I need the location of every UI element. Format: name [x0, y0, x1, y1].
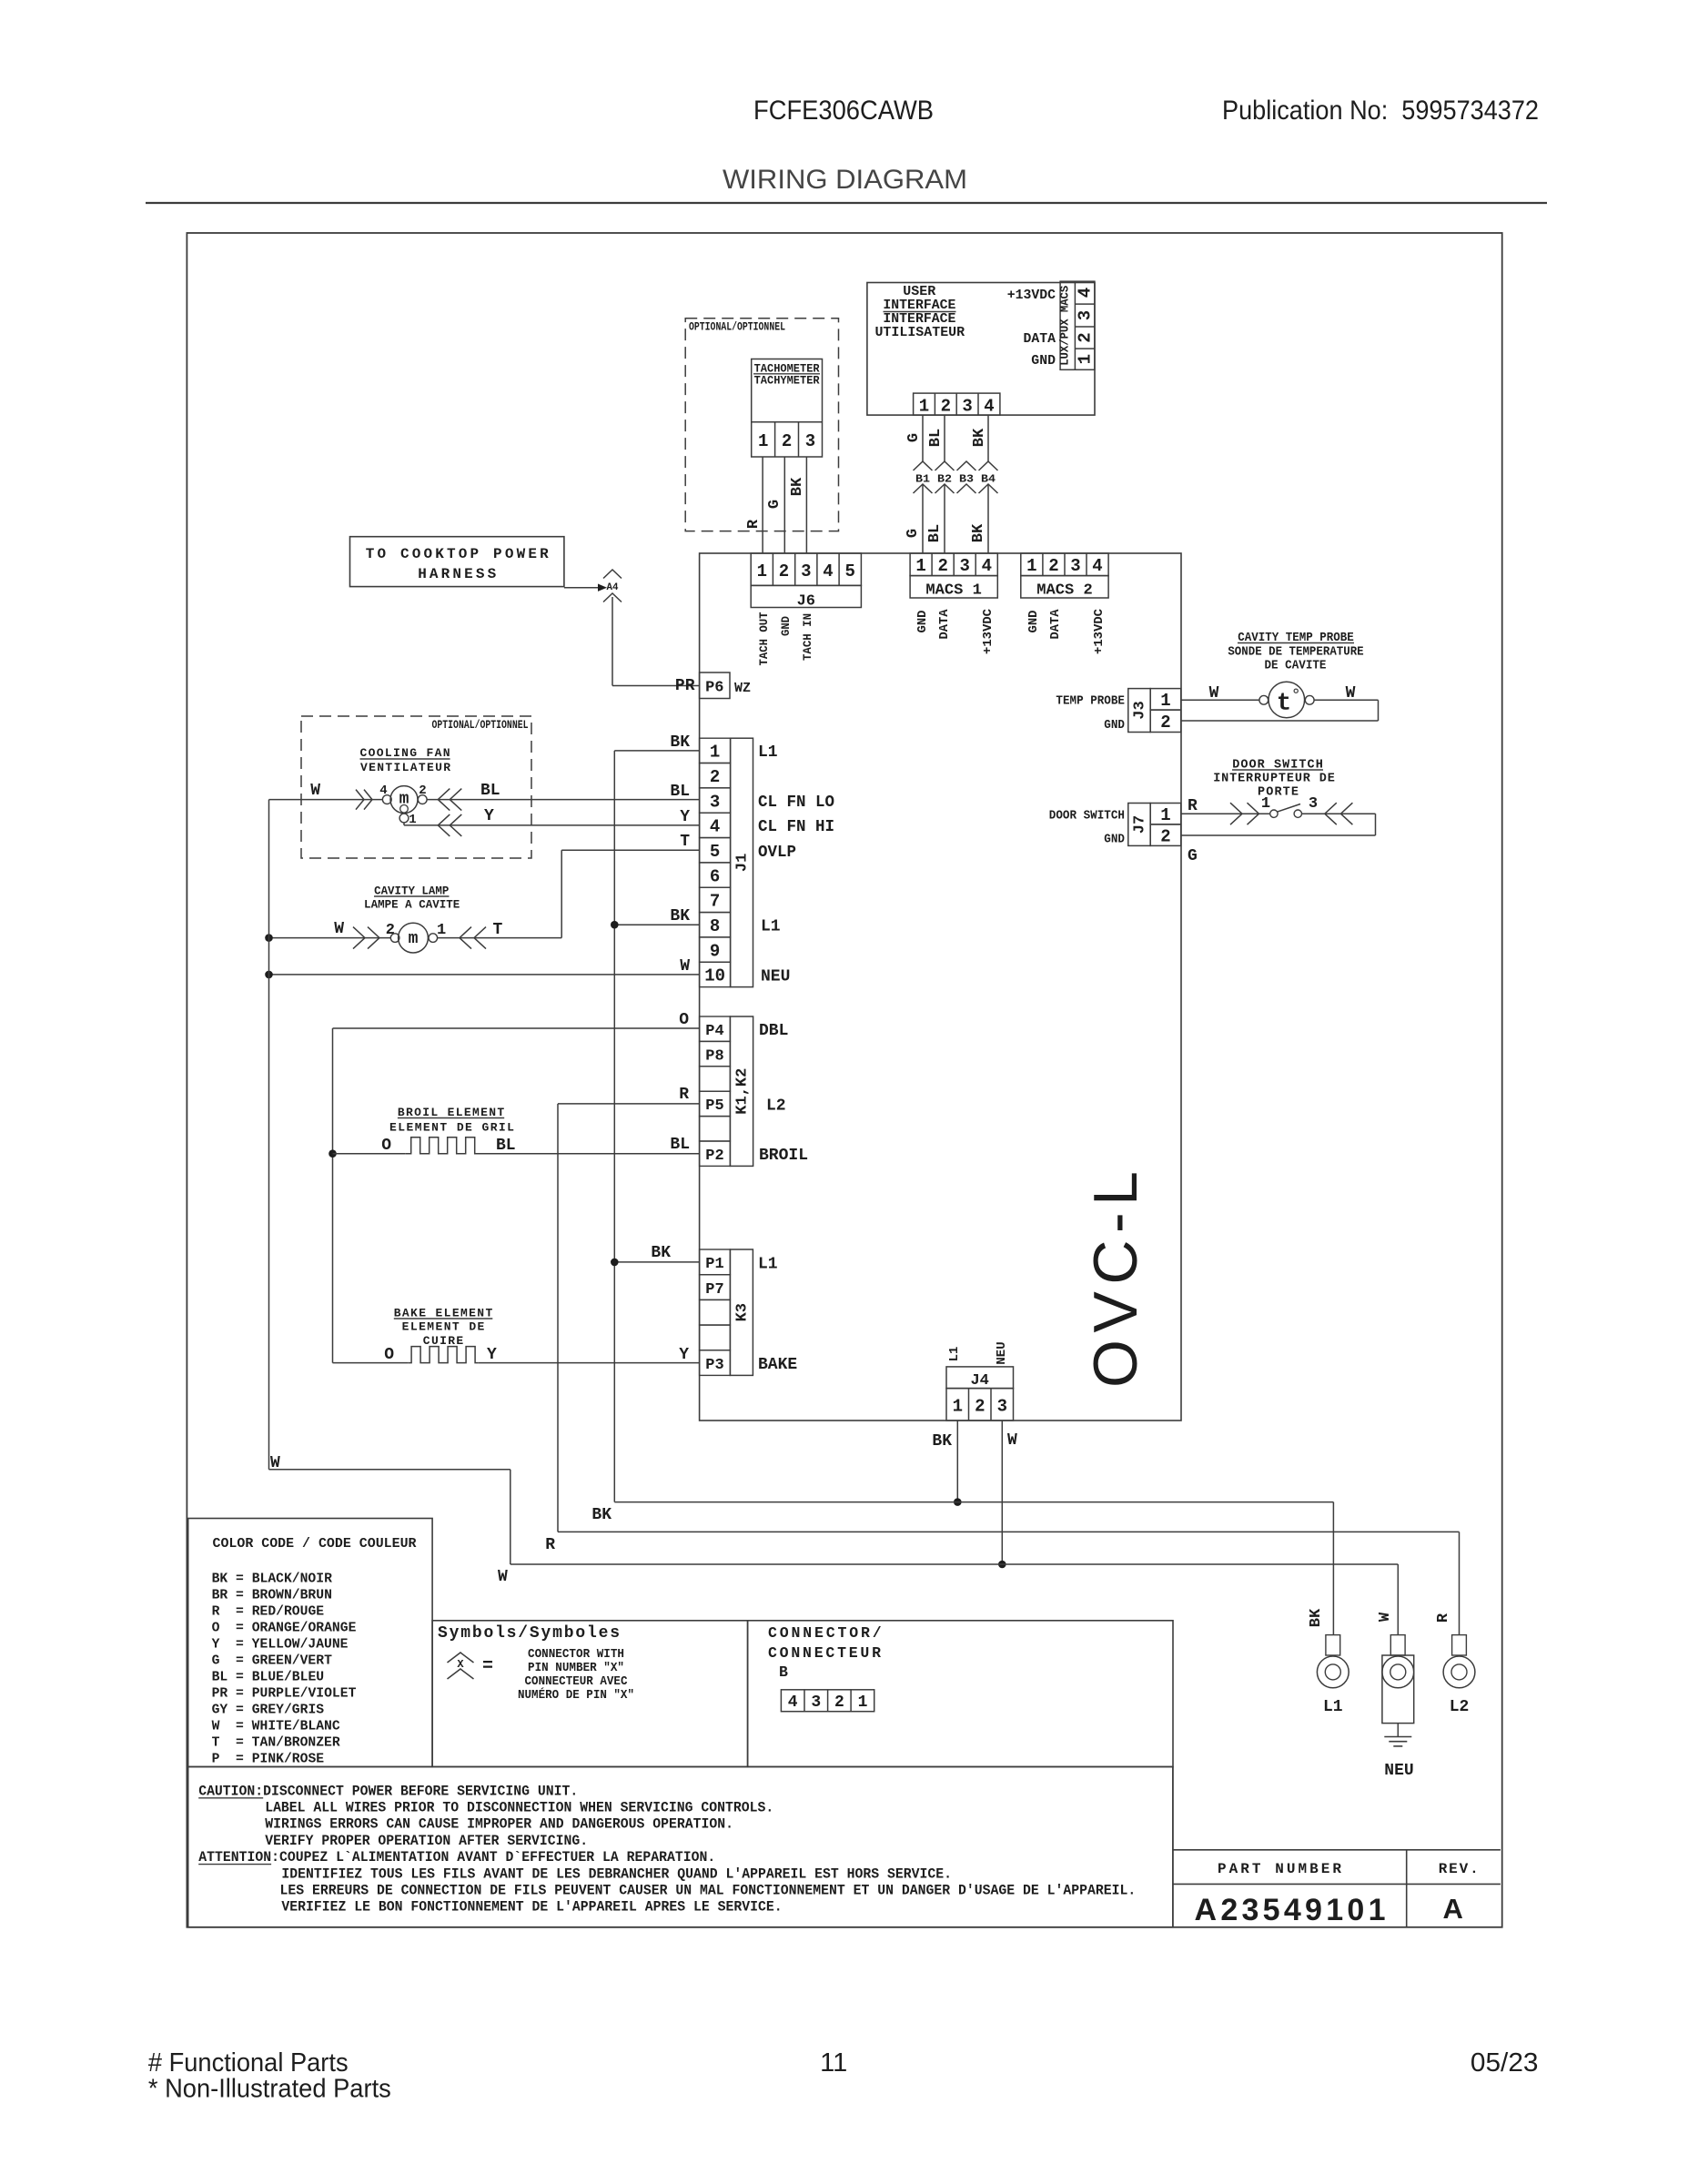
svg-text:6: 6 — [710, 866, 720, 886]
svg-text:GND: GND — [1031, 353, 1056, 369]
svg-text:3: 3 — [997, 1397, 1007, 1417]
svg-text:1: 1 — [919, 397, 929, 417]
svg-text:05/23: 05/23 — [1471, 2048, 1539, 2078]
wire O to P4 (DBL) — [333, 1027, 700, 1029]
broil element resistor — [406, 1137, 480, 1154]
legend connector symbol — [448, 1653, 474, 1663]
svg-text:BK: BK — [651, 1244, 671, 1262]
svg-text:BL: BL — [927, 429, 945, 447]
svg-text:L1: L1 — [947, 1347, 962, 1362]
svg-text:OVC-L: OVC-L — [1081, 1171, 1150, 1388]
svg-text:W: W — [498, 1568, 508, 1586]
wire BL fan to J1-3 — [427, 799, 700, 801]
svg-text:1: 1 — [915, 556, 925, 576]
svg-text:K3: K3 — [734, 1303, 752, 1321]
svg-text:Y: Y — [680, 808, 690, 826]
svg-text:Publication No: 5995734372: Publication No: 5995734372 — [1222, 96, 1539, 126]
wire UI pin to B2 — [944, 415, 945, 461]
to cooktop power harness box — [350, 537, 564, 587]
svg-text:J1: J1 — [734, 854, 752, 872]
svg-text:PIN NUMBER "X": PIN NUMBER "X" — [528, 1662, 624, 1675]
svg-text:DE CAVITE: DE CAVITE — [1265, 660, 1327, 673]
svg-text:NEU: NEU — [1384, 1762, 1413, 1780]
wire J3-1 to temp probe (W) — [1181, 699, 1259, 701]
svg-text:1: 1 — [1261, 795, 1270, 813]
svg-text:1: 1 — [710, 743, 720, 763]
svg-text:R: R — [1435, 1613, 1452, 1623]
wire Y fan to J1-4 — [403, 823, 405, 825]
svg-text:WIRINGS ERRORS CAN CAUSE IMPRO: WIRINGS ERRORS CAN CAUSE IMPROPER AND DA… — [265, 1816, 733, 1833]
svg-text:5: 5 — [844, 561, 854, 581]
svg-text:FCFE306CAWB: FCFE306CAWB — [753, 96, 934, 126]
diagram outer border — [187, 233, 1501, 1927]
wire W to fan pin4 — [269, 799, 383, 801]
svg-text:9: 9 — [710, 941, 720, 961]
svg-text:PR = PURPLE/VIOLET: PR = PURPLE/VIOLET — [212, 1686, 357, 1702]
svg-text:BK: BK — [932, 1432, 952, 1451]
optional tachometer dashed box — [685, 318, 838, 531]
svg-text:BK: BK — [670, 907, 690, 925]
svg-text:P5: P5 — [705, 1097, 723, 1115]
color code box — [188, 1519, 432, 1767]
svg-text:IDENTIFIEZ TOUS LES FILS AVANT: IDENTIFIEZ TOUS LES FILS AVANT DE LES DE… — [281, 1865, 952, 1882]
wire W to lamp — [269, 937, 391, 939]
wire J7-1 to door switch (R) — [1181, 813, 1269, 814]
svg-text:CL FN LO: CL FN LO — [758, 794, 834, 812]
svg-text:1: 1 — [409, 813, 416, 827]
terminal NEU block — [1382, 1655, 1414, 1724]
svg-text:BL: BL — [496, 1137, 516, 1155]
svg-text:CAUTION:DISCONNECT POWER BEFOR: CAUTION:DISCONNECT POWER BEFORE SERVICIN… — [198, 1783, 578, 1799]
svg-text:VENTILATEUR: VENTILATEUR — [360, 761, 450, 774]
svg-text:T = TAN/BRONZER: T = TAN/BRONZER — [212, 1735, 340, 1751]
svg-text:2: 2 — [710, 767, 720, 787]
svg-text:2: 2 — [419, 784, 426, 798]
svg-text:m: m — [399, 791, 409, 809]
svg-text:DATA: DATA — [1048, 609, 1063, 640]
svg-text:OVLP: OVLP — [758, 844, 796, 862]
svg-text:4: 4 — [1076, 288, 1096, 298]
svg-text:W: W — [680, 957, 690, 976]
connector B2 — [935, 461, 955, 470]
wire BK to J1-1 — [614, 750, 699, 752]
svg-text:BK: BK — [591, 1506, 612, 1524]
svg-text:BR = BROWN/BRUN: BR = BROWN/BRUN — [212, 1588, 332, 1603]
svg-text:2: 2 — [1160, 713, 1170, 733]
svg-text:Symbols/Symboles: Symbols/Symboles — [438, 1624, 620, 1643]
terminal L1 — [1326, 1635, 1340, 1655]
svg-text:+13VDC: +13VDC — [1092, 608, 1107, 654]
svg-text:1: 1 — [1160, 691, 1170, 711]
header rule — [146, 202, 1547, 204]
lamp T chevrons — [460, 927, 471, 949]
svg-text:TEMP PROBE: TEMP PROBE — [1056, 695, 1125, 709]
svg-text:R: R — [679, 1086, 689, 1104]
svg-text:G: G — [766, 500, 783, 509]
fan terminal 4 — [382, 795, 391, 804]
svg-text:BK: BK — [670, 733, 690, 752]
svg-text:1: 1 — [757, 561, 767, 581]
svg-text:Y = YELLOW/JAUNE: Y = YELLOW/JAUNE — [212, 1637, 349, 1653]
svg-text:2: 2 — [1048, 556, 1058, 576]
connector J3 — [1128, 689, 1150, 733]
connector MACS 2 — [1021, 553, 1108, 576]
connector B3 — [957, 461, 976, 470]
svg-text:GY = GREY/GRIS: GY = GREY/GRIS — [212, 1703, 325, 1718]
svg-text:L1: L1 — [1323, 1698, 1343, 1716]
svg-text:2: 2 — [1076, 332, 1096, 342]
svg-text:BK: BK — [1308, 1608, 1325, 1627]
svg-text:4: 4 — [788, 1694, 798, 1712]
svg-text:1: 1 — [1160, 805, 1170, 825]
svg-text:ELEMENT DE: ELEMENT DE — [402, 1320, 485, 1334]
svg-text:BL: BL — [670, 1136, 690, 1154]
svg-text:BK = BLACK/NOIR: BK = BLACK/NOIR — [212, 1572, 332, 1587]
svg-text:INTERRUPTEUR DE: INTERRUPTEUR DE — [1213, 773, 1335, 786]
door switch chevrons in — [1230, 803, 1242, 824]
connector B pin row — [781, 1690, 874, 1712]
temp probe sensor — [1269, 682, 1305, 718]
svg-text:W = WHITE/BLANC: W = WHITE/BLANC — [212, 1719, 340, 1734]
svg-text:LES ERREURS DE CONNECTION DE F: LES ERREURS DE CONNECTION DE FILS PEUVEN… — [280, 1883, 1137, 1899]
svg-text:COLOR CODE / CODE COULEUR: COLOR CODE / CODE COULEUR — [213, 1536, 417, 1552]
svg-text:7: 7 — [710, 892, 720, 912]
svg-text:BL: BL — [926, 524, 944, 542]
svg-text:5: 5 — [710, 842, 720, 862]
svg-text:W: W — [1209, 684, 1219, 703]
BK bus vertical wire — [613, 751, 615, 1502]
wire BK to J1-8 — [614, 924, 699, 925]
svg-text:MACS 1: MACS 1 — [925, 582, 982, 600]
door switch blade — [1277, 804, 1300, 813]
fan Y chevrons — [438, 814, 450, 836]
bake element resistor — [409, 1347, 479, 1363]
svg-text:W: W — [1007, 1431, 1017, 1450]
svg-text:2: 2 — [937, 556, 947, 576]
connector J7 — [1128, 804, 1150, 846]
wire A4 to P6 — [612, 597, 613, 686]
svg-text:4: 4 — [823, 561, 833, 581]
optional cooling fan dashed box — [301, 716, 531, 858]
svg-text:GND: GND — [1104, 719, 1125, 733]
BK bus lower run — [614, 1501, 1333, 1503]
wire to bake element — [333, 1362, 409, 1364]
svg-text:O: O — [381, 1137, 391, 1155]
svg-text:DATA: DATA — [1024, 331, 1056, 347]
svg-text:NEU: NEU — [761, 968, 790, 986]
svg-text:R: R — [1188, 797, 1198, 815]
ground symbol — [1397, 1724, 1399, 1737]
cavity lamp — [399, 923, 429, 953]
user interface box — [867, 283, 1095, 416]
svg-text:B: B — [779, 1663, 788, 1681]
wire to broil element — [333, 1153, 406, 1155]
temp probe terminal left — [1259, 695, 1269, 704]
junction dot J4-3 W bus — [998, 1561, 1006, 1569]
wire tach pin2 to J6-2 (G) — [783, 457, 785, 553]
svg-text:A4: A4 — [607, 582, 619, 593]
wire door switch return — [1302, 813, 1376, 814]
svg-text:+13VDC: +13VDC — [1007, 288, 1056, 303]
svg-text:P6: P6 — [705, 680, 723, 697]
svg-text:BL = BLUE/BLEU: BL = BLUE/BLEU — [212, 1670, 325, 1685]
svg-text:3: 3 — [801, 561, 811, 581]
svg-text:CONNECTEUR AVEC: CONNECTEUR AVEC — [525, 1675, 628, 1689]
svg-text:R = RED/ROUGE: R = RED/ROUGE — [212, 1604, 325, 1620]
svg-text:WIRING DIAGRAM: WIRING DIAGRAM — [723, 165, 967, 195]
svg-text:CL FN HI: CL FN HI — [758, 818, 834, 836]
svg-text:P2: P2 — [705, 1148, 723, 1165]
svg-text:L1: L1 — [761, 918, 781, 936]
attention underline — [198, 1864, 271, 1865]
wire W to J1-10 — [269, 974, 700, 976]
svg-text:P = PINK/ROSE: P = PINK/ROSE — [212, 1752, 325, 1767]
svg-text:3: 3 — [962, 397, 972, 417]
junction dot J4-1 BK bus — [954, 1498, 962, 1506]
svg-text:1: 1 — [758, 431, 768, 451]
wire lamp to T corner — [438, 937, 562, 939]
W bus vertical wire left — [268, 800, 270, 1470]
junction dot W J1-10 — [265, 971, 273, 979]
svg-text:R: R — [745, 519, 763, 529]
svg-text:TACHYMETER: TACHYMETER — [754, 375, 820, 388]
connector B4 — [979, 461, 998, 470]
door switch chevrons out — [1325, 803, 1337, 824]
svg-text:TACH OUT: TACH OUT — [757, 612, 771, 665]
lamp terminal 1 — [429, 934, 438, 943]
connector K3 pins — [700, 1249, 731, 1275]
connector MACS 1 — [910, 553, 997, 576]
cooling fan motor — [390, 786, 418, 814]
svg-text:BL: BL — [480, 782, 500, 800]
wire temp probe return — [1314, 699, 1379, 701]
svg-text:COOLING FAN: COOLING FAN — [360, 746, 450, 760]
svg-text:CUIRE: CUIRE — [423, 1334, 464, 1348]
svg-text:4: 4 — [1092, 556, 1102, 576]
svg-text:8: 8 — [710, 916, 720, 936]
svg-text:P1: P1 — [705, 1256, 723, 1273]
wire R to P5 (L2) — [558, 1103, 700, 1105]
svg-text:LAMPE A CAVITE: LAMPE A CAVITE — [364, 899, 460, 912]
svg-text:P8: P8 — [705, 1047, 723, 1065]
svg-text:PR: PR — [675, 677, 695, 695]
svg-text:A23549101: A23549101 — [1195, 1893, 1386, 1927]
connector J1 — [700, 738, 731, 763]
svg-text:G: G — [905, 529, 922, 538]
svg-text:REV.: REV. — [1439, 1861, 1479, 1877]
svg-text:O: O — [384, 1346, 394, 1364]
svg-text:4: 4 — [984, 397, 994, 417]
svg-text:GND: GND — [779, 616, 793, 636]
svg-text:BK: BK — [970, 523, 987, 542]
connector J6 — [751, 553, 861, 585]
svg-text:1: 1 — [437, 922, 446, 939]
svg-text:PART NUMBER: PART NUMBER — [1218, 1861, 1341, 1877]
svg-text:GND: GND — [915, 611, 930, 633]
wire J4-3 down (W) — [1001, 1421, 1003, 1564]
svg-text:4: 4 — [982, 556, 992, 576]
wire J4-1 down (BK) — [956, 1421, 958, 1502]
connector J4 — [946, 1367, 1014, 1389]
svg-text:2: 2 — [941, 397, 951, 417]
svg-text:P4: P4 — [705, 1023, 723, 1040]
svg-text:3: 3 — [1309, 795, 1318, 813]
svg-text:Y: Y — [679, 1346, 689, 1364]
svg-text:W: W — [334, 920, 344, 938]
svg-text:A: A — [1443, 1893, 1463, 1925]
svg-text:11: 11 — [820, 2048, 847, 2078]
fan terminal 2 — [418, 795, 427, 804]
svg-text:O: O — [679, 1011, 689, 1029]
svg-text:MACS 2: MACS 2 — [1036, 582, 1093, 600]
svg-text:J3: J3 — [1132, 701, 1149, 719]
svg-text:G: G — [1188, 847, 1198, 865]
svg-text:ELEMENT DE GRIL: ELEMENT DE GRIL — [389, 1121, 514, 1135]
svg-text:10: 10 — [704, 966, 725, 986]
temp probe terminal right — [1305, 695, 1314, 704]
svg-text:2: 2 — [1160, 827, 1170, 847]
svg-text:t: t — [1277, 691, 1291, 718]
svg-text:1: 1 — [858, 1694, 868, 1712]
connector A4 — [603, 570, 622, 579]
svg-text:m: m — [409, 930, 419, 948]
svg-text:DATA: DATA — [937, 609, 952, 640]
wire T lamp to J1-5 — [561, 849, 699, 851]
junction dot BK P1 — [611, 1259, 619, 1267]
svg-text:1: 1 — [1026, 556, 1036, 576]
svg-text:NUMÉRO DE PIN "X": NUMÉRO DE PIN "X" — [518, 1688, 634, 1703]
svg-text:L1: L1 — [758, 743, 778, 762]
svg-text:4: 4 — [379, 784, 387, 798]
wire BK to P1 — [614, 1261, 699, 1263]
svg-text:OPTIONAL/OPTIONNEL: OPTIONAL/OPTIONNEL — [432, 718, 529, 732]
svg-text:2: 2 — [975, 1397, 985, 1417]
junction dot broil tap — [329, 1149, 337, 1158]
caution underline — [198, 1797, 263, 1799]
svg-text:W: W — [270, 1454, 280, 1472]
svg-text:GND: GND — [1104, 834, 1125, 847]
connector B1 — [914, 461, 933, 470]
svg-text:P3: P3 — [705, 1357, 723, 1374]
svg-text:L2: L2 — [766, 1097, 786, 1116]
svg-text:G = GREEN/VERT: G = GREEN/VERT — [212, 1653, 332, 1669]
connector P6 — [700, 672, 730, 699]
svg-text:LABEL ALL WIRES PRIOR TO DISCO: LABEL ALL WIRES PRIOR TO DISCONNECTION W… — [265, 1800, 773, 1816]
svg-text:R: R — [545, 1536, 555, 1554]
svg-text:L1: L1 — [758, 1256, 778, 1274]
svg-text:3: 3 — [1070, 556, 1080, 576]
lamp terminal 2 — [390, 934, 399, 943]
svg-text:GND: GND — [1026, 611, 1041, 633]
svg-text:DBL: DBL — [759, 1022, 788, 1040]
svg-text:DOOR SWITCH: DOOR SWITCH — [1049, 810, 1125, 824]
wire harness box to A4 arrow — [564, 587, 598, 589]
svg-text:LUX/PUX MACS: LUX/PUX MACS — [1058, 286, 1072, 366]
svg-text:Y: Y — [484, 807, 494, 825]
svg-text:W: W — [310, 782, 320, 800]
wire BL broil to P2 — [480, 1153, 700, 1155]
wire tach pin3 to J6-3 (BK) — [805, 457, 807, 553]
svg-text:3: 3 — [959, 556, 969, 576]
symbols box — [432, 1621, 747, 1767]
wire Y bake to P3 — [478, 1362, 699, 1364]
svg-text:2: 2 — [782, 431, 792, 451]
svg-text:OPTIONAL/OPTIONNEL: OPTIONAL/OPTIONNEL — [689, 320, 785, 334]
svg-text:NEU: NEU — [995, 1341, 1009, 1364]
tachometer box — [752, 359, 823, 458]
svg-text:BROIL: BROIL — [759, 1147, 808, 1165]
terminal L2 — [1452, 1635, 1467, 1655]
fan terminal 1 — [399, 814, 409, 823]
svg-text:W: W — [1377, 1612, 1394, 1622]
svg-text:1: 1 — [1076, 354, 1096, 364]
svg-text:VERIFY PROPER OPERATION AFTER: VERIFY PROPER OPERATION AFTER SERVICING. — [265, 1833, 588, 1849]
svg-text:=: = — [482, 1656, 493, 1677]
part number table — [1173, 1849, 1501, 1851]
svg-text:G: G — [905, 433, 923, 442]
svg-text:L2: L2 — [1450, 1698, 1470, 1716]
main control board outline — [700, 553, 1181, 1421]
svg-text:SONDE DE TEMPERATURE: SONDE DE TEMPERATURE — [1228, 646, 1363, 660]
svg-text:3: 3 — [811, 1694, 821, 1712]
connector LUX/PUX MACS — [1060, 281, 1095, 369]
svg-text:J6: J6 — [797, 593, 815, 611]
R bus lower run — [558, 1531, 1460, 1532]
svg-text:P7: P7 — [705, 1281, 723, 1299]
junction dot W lamp — [265, 934, 273, 942]
svg-text:J7: J7 — [1132, 815, 1149, 834]
svg-text:3: 3 — [805, 431, 815, 451]
svg-text:WZ: WZ — [734, 681, 751, 696]
svg-text:BK: BK — [789, 477, 806, 496]
svg-text:T: T — [493, 921, 503, 939]
caution box — [188, 1767, 1173, 1927]
wire tach pin1 to J6-1 (R) — [762, 457, 763, 553]
svg-text:+13VDC: +13VDC — [981, 608, 996, 654]
svg-text:O = ORANGE/ORANGE: O = ORANGE/ORANGE — [212, 1621, 357, 1636]
svg-text:TACH IN: TACH IN — [801, 613, 814, 661]
svg-text:# Functional Parts: # Functional Parts — [148, 2048, 349, 2078]
svg-text:BK: BK — [971, 428, 988, 447]
R bus vertical wire — [557, 1104, 559, 1532]
svg-text:BAKE: BAKE — [758, 1356, 797, 1374]
W bus lower run — [269, 1469, 510, 1471]
connector B box — [748, 1621, 1173, 1767]
connector K1,K2 pins — [700, 1016, 731, 1041]
svg-text:Y: Y — [487, 1346, 497, 1364]
door switch contact 1 — [1270, 810, 1278, 817]
wire UI pin to B4 — [987, 415, 989, 461]
svg-text:CONNECTOR WITH: CONNECTOR WITH — [528, 1648, 624, 1662]
svg-text:BL: BL — [670, 783, 690, 801]
svg-text:1: 1 — [953, 1397, 963, 1417]
svg-text:2: 2 — [779, 561, 789, 581]
svg-text:BAKE ELEMENT: BAKE ELEMENT — [394, 1307, 493, 1320]
svg-text:J4: J4 — [970, 1372, 988, 1390]
svg-text:* Non-Illustrated Parts: * Non-Illustrated Parts — [148, 2075, 391, 2104]
svg-text:3: 3 — [1076, 310, 1096, 320]
svg-text:UTILISATEUR: UTILISATEUR — [874, 325, 965, 340]
svg-text:VERIFIEZ LE BON FONCTIONNEMENT: VERIFIEZ LE BON FONCTIONNEMENT DE L'APPA… — [281, 1899, 782, 1916]
svg-text:T: T — [680, 833, 690, 851]
door switch contact 3 — [1294, 810, 1301, 817]
fan BL chevrons — [438, 789, 450, 811]
svg-text:W: W — [1346, 684, 1356, 703]
svg-text:K1,K2: K1,K2 — [734, 1068, 752, 1115]
wire UI pin to B1 — [922, 415, 924, 461]
junction dot BK J1-8 — [611, 921, 619, 929]
svg-text:3: 3 — [710, 792, 720, 812]
